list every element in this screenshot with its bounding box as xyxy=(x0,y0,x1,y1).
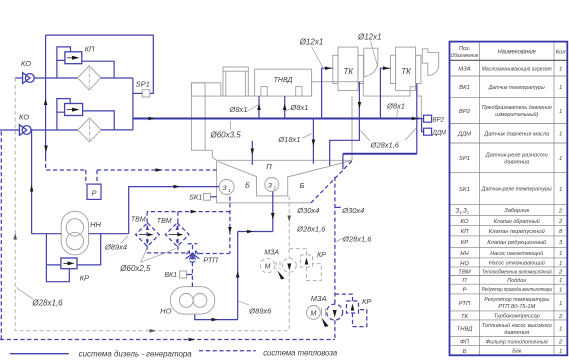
wire: NO riser 89x6 xyxy=(236,232,240,320)
oil pan P (poddon) with tank sections B xyxy=(217,160,352,203)
legend: diesel-generator system xyxy=(10,350,193,359)
label Ø12x1 (TK1) xyxy=(299,38,324,67)
svg-text:Редуктор привода вентилятора: Редуктор привода вентилятора xyxy=(482,287,553,293)
svg-text:давления: давления xyxy=(504,160,530,166)
svg-text:М: М xyxy=(310,309,316,318)
svg-text:РТП: РТП xyxy=(459,301,471,307)
wire: TK2 oil supply xyxy=(380,66,390,118)
temperature relay SK1 xyxy=(189,193,216,201)
svg-text:Клапан обратный: Клапан обратный xyxy=(494,218,541,225)
svg-text:1: 1 xyxy=(559,287,562,293)
wire: NO bottom run xyxy=(195,314,238,321)
svg-text:ТК: ТК xyxy=(343,67,354,76)
wire: main oil gallery xyxy=(133,117,420,121)
svg-text:SK1: SK1 xyxy=(189,194,202,201)
pressure-difference relay SP1 xyxy=(133,80,150,97)
diesel engine block outline xyxy=(191,67,421,160)
turbocharger TK2 xyxy=(390,47,421,91)
wire: NN ports xyxy=(32,233,129,235)
wire: TK2 oil drain (thick) to sump xyxy=(343,84,417,170)
svg-text:Датчик-реле разности: Датчик-реле разности xyxy=(485,153,549,159)
wire: dashed line to fan reducer P xyxy=(46,157,217,184)
relief valve KR (blue dashed) xyxy=(335,294,372,327)
exhaust duct right xyxy=(422,49,438,75)
wire: tank diagonal boundary (blue dashed) xyxy=(311,161,352,203)
svg-text:Ø8х1: Ø8х1 xyxy=(290,103,309,112)
svg-text:Ø28х1,6: Ø28х1,6 xyxy=(342,234,372,243)
temperature regulator RTP xyxy=(186,244,219,265)
svg-text:Ø30х4: Ø30х4 xyxy=(296,206,319,215)
bypass valve KP1 xyxy=(57,45,114,79)
svg-text:Р: Р xyxy=(91,188,96,197)
svg-text:SP1: SP1 xyxy=(459,156,470,162)
svg-text:ТВМ: ТВМ xyxy=(157,218,172,225)
svg-text:ФП: ФП xyxy=(460,340,470,346)
wire: filter outlets header xyxy=(132,78,134,130)
svg-text:Фильтр полнопоточный: Фильтр полнопоточный xyxy=(486,338,549,345)
svg-text:КО: КО xyxy=(461,219,469,225)
svg-text:Ø28х1,6: Ø28х1,6 xyxy=(31,299,63,308)
svg-text:ВР2: ВР2 xyxy=(459,109,471,115)
legend: locomotive system xyxy=(199,348,338,357)
wire: diesel-generator boundary (blue dashed, left edge + bottom, MZA-2 path) xyxy=(0,131,335,341)
svg-text:ТВМ: ТВМ xyxy=(131,216,146,223)
svg-text:П: П xyxy=(462,278,467,284)
fan drive reducer P xyxy=(87,184,101,199)
label Ø89x4 xyxy=(104,236,128,252)
pressure transducer VR2 xyxy=(420,115,445,131)
label Ø18x1 xyxy=(277,133,311,144)
svg-text:Датчик-реле температуры: Датчик-реле температуры xyxy=(481,187,552,193)
svg-text:КП: КП xyxy=(85,45,95,54)
wire: TK1 oil drain to sump xyxy=(330,82,362,166)
svg-text:Ø60х2,5: Ø60х2,5 xyxy=(119,264,151,273)
full-flow filter FP2 (diamond) xyxy=(78,118,101,142)
svg-text:система тепловоза: система тепловоза xyxy=(263,348,338,357)
label Ø89x6 xyxy=(239,301,273,315)
svg-text:Ø28х1,6: Ø28х1,6 xyxy=(370,140,400,149)
svg-text:1: 1 xyxy=(559,327,562,333)
svg-text:Ø12х1: Ø12х1 xyxy=(299,38,324,47)
svg-text:Поз.: Поз. xyxy=(459,46,470,52)
svg-text:Р: Р xyxy=(463,287,467,293)
svg-text:ТНВД: ТНВД xyxy=(274,77,293,84)
svg-text:Теплообменник водомасляный: Теплообменник водомасляный xyxy=(482,268,553,275)
svg-text:ТК: ТК xyxy=(401,67,412,76)
svg-text:МЗА: МЗА xyxy=(264,249,279,256)
svg-text:Преобразователь давления: Преобразователь давления xyxy=(482,105,553,111)
svg-text:Ø30х4: Ø30х4 xyxy=(341,206,364,215)
svg-text:1: 1 xyxy=(559,156,562,162)
svg-text:Клапан редукционный: Клапан редукционный xyxy=(487,239,547,246)
svg-text:КО: КО xyxy=(19,113,29,122)
svg-text:1: 1 xyxy=(559,109,562,115)
svg-text:2: 2 xyxy=(558,340,563,346)
svg-text:Ø60х3,5: Ø60х3,5 xyxy=(209,131,241,140)
svg-text:Ø8х1: Ø8х1 xyxy=(386,102,405,111)
wire: TNVD feed 2 xyxy=(283,96,287,118)
svg-text:SP1: SP1 xyxy=(136,80,150,89)
svg-text:2: 2 xyxy=(558,270,563,276)
svg-text:2: 2 xyxy=(558,314,563,320)
svg-text:Насос нагнетающий: Насос нагнетающий xyxy=(490,250,544,257)
svg-text:Датчик температуры: Датчик температуры xyxy=(488,85,545,91)
svg-text:КР: КР xyxy=(80,274,89,283)
svg-text:1: 1 xyxy=(559,67,562,73)
wire: common riser x46 (connects KO lines, top line, reducer P) xyxy=(44,35,48,157)
turbocharger TK1 xyxy=(333,47,364,91)
full-flow filter FP1 (diamond) xyxy=(78,66,101,90)
wire: locomotive-system boundary (gray dash-dot, left/bottom, MZA-1 ghost path) xyxy=(13,78,289,333)
svg-text:давления: давления xyxy=(504,330,530,336)
svg-text:1: 1 xyxy=(559,251,562,257)
svg-text:КР: КР xyxy=(362,297,371,306)
svg-text:Турбокомпрессор: Турбокомпрессор xyxy=(494,314,541,320)
svg-text:SK1: SK1 xyxy=(459,187,470,193)
svg-text:МЗА: МЗА xyxy=(458,67,471,73)
label Ø8x1 (TNVD left) xyxy=(229,105,259,114)
svg-text:1: 1 xyxy=(559,261,562,267)
wire: upstream pressure tap (top) to SP1 xyxy=(46,35,154,93)
wire: TNVD feed 1 xyxy=(257,96,261,118)
svg-text:Б: Б xyxy=(245,181,250,190)
svg-text:НО: НО xyxy=(460,261,469,267)
svg-text:РТП 80-75-1М: РТП 80-75-1М xyxy=(498,304,535,310)
wire filter2 outlet xyxy=(101,129,133,131)
svg-text:Датчик давления масла: Датчик давления масла xyxy=(483,131,550,137)
svg-text:КР: КР xyxy=(317,252,326,259)
svg-text:Бак: Бак xyxy=(512,349,521,355)
label Ø60x3,5 xyxy=(209,121,241,140)
wire filter1 outlet xyxy=(101,77,133,79)
wire: TK1 oil supply xyxy=(322,66,333,118)
label Ø12x1 (TK2) xyxy=(357,32,382,67)
heat exchanger TVM1 xyxy=(131,216,159,246)
svg-text:НО: НО xyxy=(160,306,171,315)
check valve KO (lower) xyxy=(0,113,31,136)
svg-text:КР: КР xyxy=(461,240,468,246)
svg-text:Регулятор температуры: Регулятор температуры xyxy=(484,297,550,303)
label Ø8x1 (TK2 drain) xyxy=(386,102,405,117)
exhaust duct between turbos xyxy=(364,48,378,76)
svg-text:1: 1 xyxy=(559,349,562,355)
svg-text:Заборник: Заборник xyxy=(504,208,529,214)
svg-text:ТНВД: ТНВД xyxy=(457,327,473,333)
wire: transfer to NO riser xyxy=(238,230,273,234)
svg-text:ДДМ: ДДМ xyxy=(432,131,446,137)
oil priming unit MZA (blue dashed, locomotive side) xyxy=(307,177,343,340)
main pump NN (gear pump) xyxy=(61,211,101,255)
bypass valve KP2 xyxy=(57,99,114,130)
svg-text:Ø8х1: Ø8х1 xyxy=(229,105,248,114)
wire: NN suction from Z1 xyxy=(129,185,220,234)
svg-text:Наименование: Наименование xyxy=(498,49,536,56)
svg-text:Клапан перепускной: Клапан перепускной xyxy=(489,228,546,235)
temperature sensor VK1 xyxy=(164,271,192,279)
svg-text:МЗА: МЗА xyxy=(311,294,327,303)
wire: TVM bottom header to RTP xyxy=(147,252,230,255)
wire KO1 to filter xyxy=(34,77,78,79)
svg-text:ТК: ТК xyxy=(461,314,469,320)
svg-text:Ø89х4: Ø89х4 xyxy=(104,243,127,252)
node Z1 (oil pickup 1) xyxy=(219,180,234,195)
svg-text:1: 1 xyxy=(559,301,562,307)
wire: NN discharge riser to KO2 xyxy=(30,130,34,234)
svg-text:Кол: Кол xyxy=(556,50,567,56)
svg-text:ДДМ: ДДМ xyxy=(457,132,471,138)
relief valve KR (main) xyxy=(46,234,100,283)
parts list table xyxy=(450,42,568,356)
svg-text:НН: НН xyxy=(460,251,469,257)
label Ø28x1,6 (TK drains) xyxy=(361,129,417,150)
svg-text:1: 1 xyxy=(559,187,562,193)
scavenge pump NO xyxy=(160,287,215,316)
svg-text:1: 1 xyxy=(559,85,562,91)
check valve KO (upper) xyxy=(15,59,34,83)
svg-text:2: 2 xyxy=(558,208,563,214)
svg-text:М: М xyxy=(265,264,271,271)
wire: TVM branch risers xyxy=(147,212,178,253)
label Ø60x2,5 xyxy=(119,249,176,274)
svg-text:Ø18х1: Ø18х1 xyxy=(277,135,300,144)
svg-text:измерительный): измерительный) xyxy=(495,111,538,118)
svg-text:НН: НН xyxy=(90,220,101,229)
wire: TVM top header xyxy=(147,210,230,214)
wire: NO suction from RTP (dashed) xyxy=(191,262,193,287)
svg-text:Топливный насос высокого: Топливный насос высокого xyxy=(482,322,553,329)
label Ø8x1 (TNVD right) xyxy=(285,103,308,112)
wire KO2 to filter xyxy=(31,129,78,131)
svg-text:КО: КО xyxy=(21,59,31,68)
label Ø28x1,6 (left) xyxy=(17,288,64,308)
svg-text:1: 1 xyxy=(228,188,230,193)
svg-text:Б: Б xyxy=(300,181,305,190)
node Z2 (oil pickup 2) xyxy=(265,178,279,192)
label Ø28x1,6 (right) xyxy=(336,234,373,243)
svg-text:ВК1: ВК1 xyxy=(164,272,177,279)
svg-text:Обозначение: Обозначение xyxy=(451,53,479,59)
oil pressure sensor DDM xyxy=(424,128,446,136)
wire: sump to TVM header (dashed) xyxy=(228,197,232,254)
svg-text:1: 1 xyxy=(559,278,562,284)
svg-text:2: 2 xyxy=(558,219,563,225)
svg-text:ВК1: ВК1 xyxy=(459,85,470,91)
svg-text:Ø28х1,6: Ø28х1,6 xyxy=(296,225,326,234)
heat exchanger TVM2 xyxy=(157,218,189,246)
oil priming unit MZA (ghost, gray dashed) xyxy=(260,196,296,331)
svg-text:Б: Б xyxy=(463,349,467,355)
svg-text:1: 1 xyxy=(559,132,562,138)
svg-text:ВР2: ВР2 xyxy=(433,118,445,124)
svg-text:КП: КП xyxy=(461,229,469,235)
relief valve KR (ghost, gray dashed) xyxy=(289,249,326,281)
svg-text:З1,З2: З1,З2 xyxy=(456,208,470,215)
svg-text:Насос откачивающий: Насос откачивающий xyxy=(489,260,546,267)
label Ø30x4 (right) xyxy=(335,206,364,215)
wire: sump drop left xyxy=(251,141,255,165)
svg-text:ТВМ: ТВМ xyxy=(458,270,471,276)
svg-text:Ø89х6: Ø89х6 xyxy=(248,306,272,315)
wire: sump drop 18x1 xyxy=(312,119,316,164)
svg-text:П: П xyxy=(266,162,272,171)
svg-text:Ø12х1: Ø12х1 xyxy=(357,32,382,41)
svg-text:система дизель - генератора: система дизель - генератора xyxy=(79,350,193,359)
svg-text:Маслозакачивающий агрегат: Маслозакачивающий агрегат xyxy=(482,65,552,72)
svg-text:Поддон: Поддон xyxy=(507,278,527,284)
wire: Z2 riser xyxy=(271,192,275,232)
svg-text:РТП: РТП xyxy=(203,256,218,265)
